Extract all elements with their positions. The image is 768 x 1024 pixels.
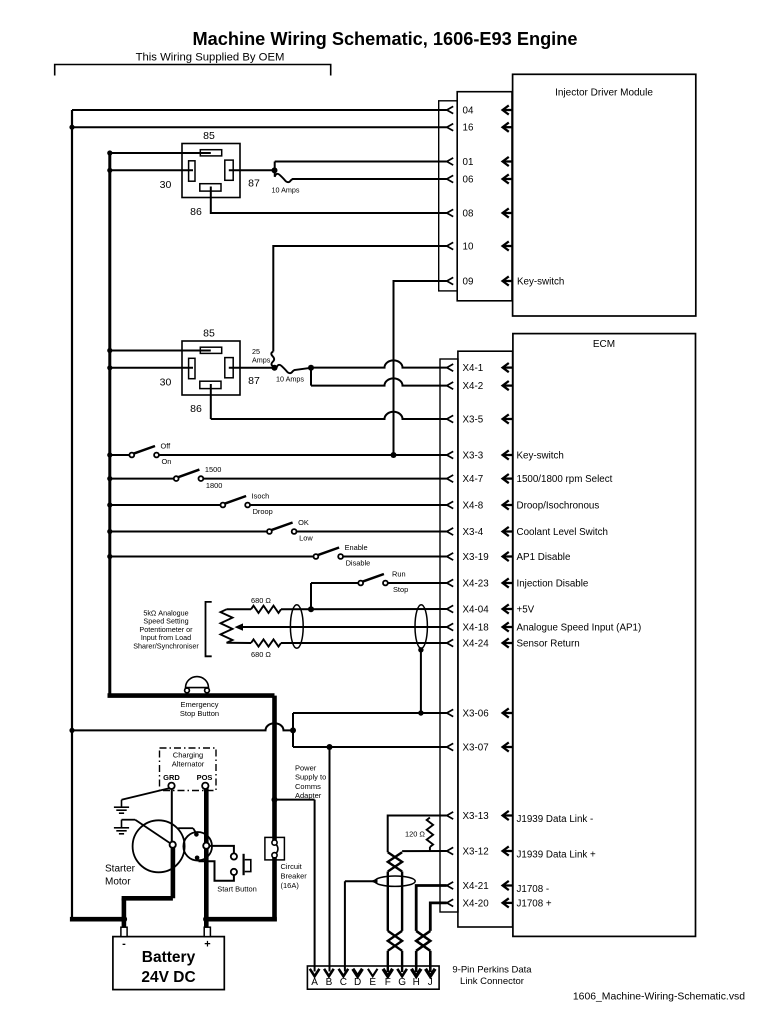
svg-text:Emergency: Emergency <box>181 700 219 709</box>
svg-text:X3-3: X3-3 <box>463 451 484 462</box>
svg-text:E: E <box>369 977 376 988</box>
svg-text:Starter: Starter <box>105 864 136 875</box>
svg-text:ECM: ECM <box>593 339 615 350</box>
svg-text:X3-06: X3-06 <box>463 709 490 720</box>
svg-text:10: 10 <box>463 242 474 253</box>
svg-text:-: - <box>122 938 126 950</box>
svg-text:10 Amps: 10 Amps <box>276 375 304 384</box>
svg-text:Power: Power <box>295 764 317 773</box>
svg-text:Start Button: Start Button <box>217 885 257 894</box>
svg-text:On: On <box>162 457 172 466</box>
svg-text:GRD: GRD <box>163 773 180 782</box>
svg-text:X3-19: X3-19 <box>463 552 489 563</box>
svg-text:C: C <box>340 977 347 988</box>
svg-text:680 Ω: 680 Ω <box>251 596 271 605</box>
svg-text:85: 85 <box>203 130 215 142</box>
svg-text:Circuit: Circuit <box>281 862 303 871</box>
svg-text:POS: POS <box>197 773 213 782</box>
svg-text:120 Ω: 120 Ω <box>405 830 425 839</box>
svg-text:F: F <box>385 977 391 988</box>
svg-text:01: 01 <box>463 157 474 168</box>
svg-text:H: H <box>413 977 420 988</box>
svg-text:86: 86 <box>190 206 202 218</box>
svg-text:Droop: Droop <box>253 507 273 516</box>
svg-text:Disable: Disable <box>346 559 371 568</box>
svg-text:X4-2: X4-2 <box>463 381 484 392</box>
svg-text:Isoch: Isoch <box>252 491 270 500</box>
svg-text:J1939 Data Link -: J1939 Data Link - <box>517 814 594 825</box>
svg-text:Off: Off <box>161 441 172 450</box>
svg-text:Coolant Level Switch: Coolant Level Switch <box>517 527 609 538</box>
svg-text:1500/1800 rpm Select: 1500/1800 rpm Select <box>517 474 613 485</box>
svg-text:A: A <box>311 977 318 988</box>
svg-text:Key-switch: Key-switch <box>517 451 564 462</box>
svg-text:30: 30 <box>160 179 172 191</box>
svg-text:06: 06 <box>463 175 474 186</box>
svg-text:680 Ω: 680 Ω <box>251 650 271 659</box>
svg-text:AP1 Disable: AP1 Disable <box>517 552 571 563</box>
svg-text:X4-23: X4-23 <box>463 579 490 590</box>
svg-text:Key-switch: Key-switch <box>517 277 564 288</box>
svg-text:Stop Button: Stop Button <box>180 709 219 718</box>
svg-text:J1708 -: J1708 - <box>517 884 550 895</box>
svg-text:30: 30 <box>160 377 172 389</box>
svg-text:08: 08 <box>463 209 474 220</box>
svg-text:Enable: Enable <box>345 543 368 552</box>
svg-text:J1708 +: J1708 + <box>517 898 552 909</box>
svg-text:Sensor Return: Sensor Return <box>517 639 580 650</box>
svg-text:Breaker: Breaker <box>281 872 308 881</box>
svg-text:1500: 1500 <box>205 465 221 474</box>
svg-text:X4-21: X4-21 <box>463 881 489 892</box>
svg-text:Motor: Motor <box>105 877 131 888</box>
svg-text:Battery: Battery <box>142 949 196 966</box>
svg-text:This Wiring Supplied By OEM: This Wiring Supplied By OEM <box>136 52 285 64</box>
svg-text:Charging: Charging <box>173 751 203 760</box>
svg-text:Amps: Amps <box>252 356 271 365</box>
svg-text:Analogue Speed Input (AP1): Analogue Speed Input (AP1) <box>517 623 642 634</box>
svg-text:Sharer/Synchroniser: Sharer/Synchroniser <box>133 641 199 650</box>
svg-text:Alternator: Alternator <box>172 760 205 769</box>
svg-text:87: 87 <box>248 375 260 387</box>
svg-text:Droop/Isochronous: Droop/Isochronous <box>517 501 600 512</box>
svg-text:D: D <box>354 977 361 988</box>
svg-text:Comms: Comms <box>295 782 321 791</box>
svg-text:+: + <box>204 939 210 951</box>
svg-text:24V DC: 24V DC <box>141 969 195 986</box>
svg-text:Low: Low <box>299 534 313 543</box>
svg-text:X4-7: X4-7 <box>463 474 484 485</box>
svg-text:10 Amps: 10 Amps <box>272 186 300 195</box>
svg-text:X3-5: X3-5 <box>463 415 484 426</box>
svg-text:+5V: +5V <box>517 605 535 616</box>
svg-text:X4-8: X4-8 <box>463 501 484 512</box>
svg-text:Link Connector: Link Connector <box>460 976 524 987</box>
svg-text:J: J <box>428 977 433 988</box>
svg-text:OK: OK <box>298 518 309 527</box>
svg-text:Supply to: Supply to <box>295 773 326 782</box>
svg-text:G: G <box>398 977 406 988</box>
svg-text:1606_Machine-Wiring-Schematic.: 1606_Machine-Wiring-Schematic.vsd <box>573 992 745 1003</box>
svg-text:Machine Wiring Schematic, 1606: Machine Wiring Schematic, 1606-E93 Engin… <box>193 29 578 49</box>
svg-text:X3-4: X3-4 <box>463 527 484 538</box>
svg-text:09: 09 <box>463 277 474 288</box>
svg-text:9-Pin Perkins Data: 9-Pin Perkins Data <box>452 965 532 976</box>
svg-text:1800: 1800 <box>206 481 222 490</box>
svg-text:Injector Driver Module: Injector Driver Module <box>555 88 653 99</box>
svg-text:16: 16 <box>463 123 474 134</box>
svg-text:85: 85 <box>203 328 215 340</box>
svg-text:X4-24: X4-24 <box>463 639 490 650</box>
svg-text:X4-04: X4-04 <box>463 605 490 616</box>
svg-text:(16A): (16A) <box>281 881 300 890</box>
svg-text:X3-07: X3-07 <box>463 743 489 754</box>
svg-text:Injection Disable: Injection Disable <box>517 579 589 590</box>
svg-text:X3-12: X3-12 <box>463 847 489 858</box>
svg-text:Run: Run <box>392 569 406 578</box>
svg-text:86: 86 <box>190 403 202 415</box>
svg-text:X4-1: X4-1 <box>463 363 484 374</box>
svg-text:B: B <box>326 977 333 988</box>
svg-text:J1939 Data Link +: J1939 Data Link + <box>517 850 597 861</box>
svg-text:Stop: Stop <box>393 585 408 594</box>
svg-text:04: 04 <box>463 106 474 117</box>
svg-text:X4-20: X4-20 <box>463 898 490 909</box>
svg-text:X3-13: X3-13 <box>463 811 490 822</box>
svg-text:X4-18: X4-18 <box>463 623 490 634</box>
svg-text:87: 87 <box>248 178 260 190</box>
